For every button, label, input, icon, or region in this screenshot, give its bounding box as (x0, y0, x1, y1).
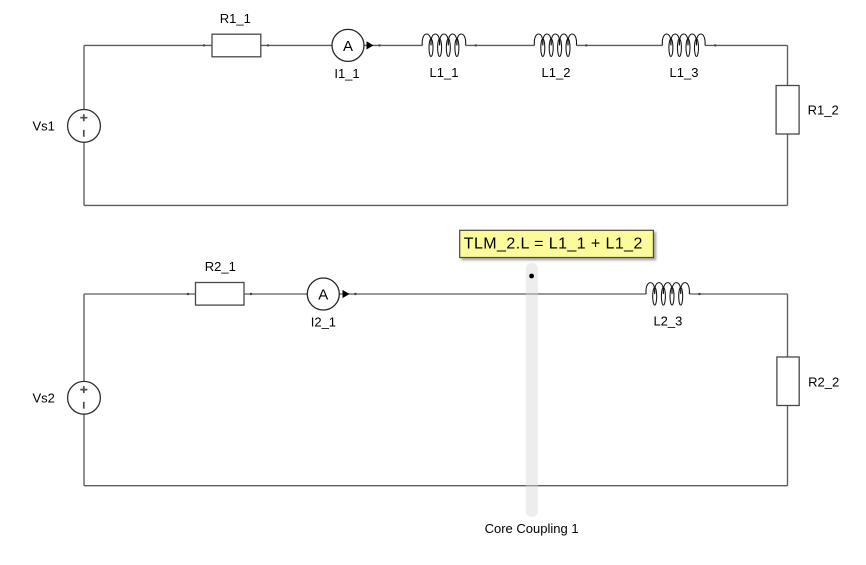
port dot right of R2_1 (250, 293, 252, 295)
voltage source Vs2 (68, 381, 101, 414)
wire ammeter I1_1 to L1_1 (364, 44, 422, 46)
wire left vertical bottom (corner to Vs2) (83, 414, 85, 486)
resistor R2_2 (777, 357, 799, 406)
wire R2_1 to ammeter I2_1 (244, 293, 307, 295)
svg-text:R2_2: R2_2 (808, 374, 839, 389)
ammeter I1_1 (332, 29, 364, 61)
port dot right of L2_3 (698, 293, 700, 295)
port dot right of arrow I2_1 (354, 293, 356, 295)
resistor R1_2 (776, 86, 799, 135)
wire L1_2 to L1_3 (576, 44, 662, 46)
svg-text:R1_1: R1_1 (220, 11, 251, 26)
resistor R2_1 (196, 283, 245, 306)
svg-text:L2_3: L2_3 (653, 314, 682, 329)
inductor L1_3 (662, 34, 705, 57)
svg-text:L1_3: L1_3 (670, 65, 699, 80)
svg-text:Vs2: Vs2 (33, 390, 55, 405)
arrow after I1_1 (367, 41, 374, 49)
wire left vertical top (Vs2 to corner) (83, 294, 85, 381)
wire left vertical top (Vs1 to corner) (83, 45, 85, 109)
svg-text:I1_1: I1_1 (334, 66, 359, 81)
arrow after I2_1 (343, 290, 350, 298)
svg-text:R1_2: R1_2 (808, 103, 839, 118)
svg-text:L1_1: L1_1 (430, 65, 459, 80)
wire L1_3 to top-right corner (705, 44, 788, 46)
wire ammeter I2_1 to L2_3 (crosses core bar) (339, 293, 646, 295)
wire L2_3 to top-right corner (689, 293, 787, 295)
svg-text:TLM_2.L = L1_1 + L1_2: TLM_2.L = L1_1 + L1_2 (464, 236, 643, 253)
core coupling bar (526, 263, 538, 517)
port dot left of R1_1 (203, 44, 205, 46)
port dot right of L1_2 (585, 44, 587, 46)
port dot right of arrow I1_1 (378, 44, 380, 46)
inductor L1_2 (534, 34, 576, 57)
wire right vertical top (corner to R2_2) (787, 294, 789, 357)
inductor L1_1 (422, 34, 466, 57)
svg-text:R2_1: R2_1 (205, 259, 236, 274)
wire right vertical bottom (R2_2 to corner) (787, 406, 789, 486)
port dot right of L1_3 (714, 44, 716, 46)
wire right vertical bottom (R1_2 to corner) (787, 134, 789, 205)
wire L1_1 to L1_2 (466, 44, 535, 46)
wire top-left horizontal (Vs2 top to R2_1) (84, 293, 196, 295)
wire left vertical bottom (corner to Vs1) (83, 142, 85, 205)
resistor R1_1 (212, 34, 261, 57)
inductor L2_3 (646, 283, 689, 306)
svg-text:Core Coupling 1: Core Coupling 1 (485, 521, 579, 536)
annotation box TLM_2.L = L1_1 + L1_2 (460, 230, 654, 257)
svg-text:L1_2: L1_2 (542, 65, 571, 80)
wire R1_1 to ammeter I1_1 (261, 44, 332, 46)
port dot right of R1_1 (267, 44, 269, 46)
svg-text:Vs1: Vs1 (33, 119, 55, 134)
voltage source Vs1 (68, 110, 101, 143)
annotation anchor dot on core coupling bar (529, 274, 534, 279)
svg-text:I2_1: I2_1 (311, 314, 336, 329)
port dot right of L1_1 (475, 44, 477, 46)
wire right vertical top (corner to R1_2) (787, 45, 789, 85)
port dot left of R2_1 (187, 293, 189, 295)
svg-text:A: A (318, 287, 328, 304)
wire top-left horizontal (Vs1 top to R1_1) (84, 44, 212, 46)
ammeter I2_1 (307, 278, 339, 310)
wire bottom of loop 2 (crosses core bar) (84, 485, 788, 487)
svg-text:A: A (343, 38, 353, 55)
wire bottom of loop 1 (84, 204, 788, 206)
